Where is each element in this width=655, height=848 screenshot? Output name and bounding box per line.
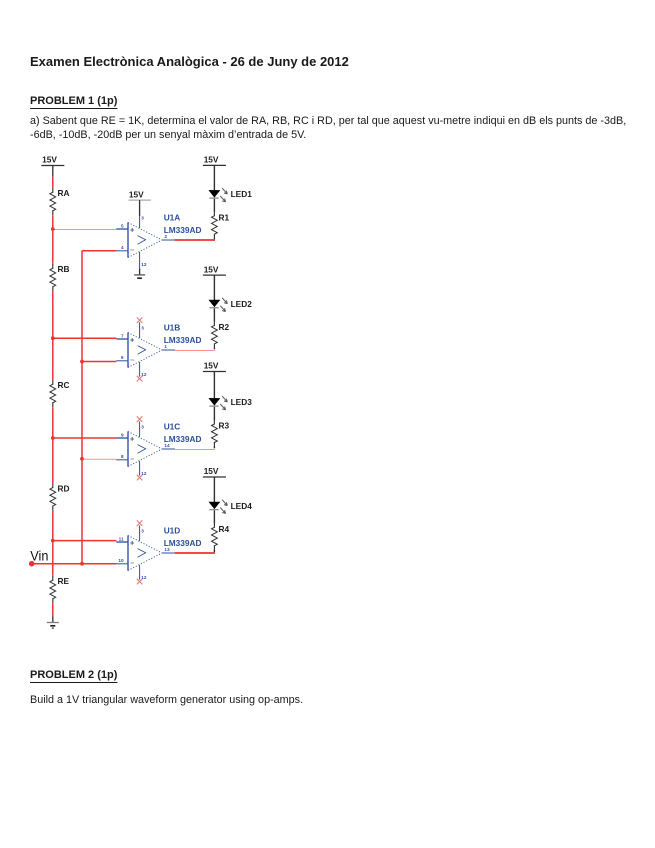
svg-text:RB: RB [58, 264, 70, 274]
svg-text:10: 10 [118, 558, 124, 563]
svg-text:6: 6 [121, 355, 124, 360]
svg-text:RA: RA [58, 188, 70, 198]
svg-text:3: 3 [141, 425, 144, 430]
svg-text:LED4: LED4 [231, 501, 253, 511]
svg-text:12: 12 [141, 575, 147, 580]
svg-text:LED2: LED2 [231, 299, 253, 309]
svg-text:15V: 15V [204, 361, 219, 371]
svg-text:LM339AD: LM339AD [164, 225, 202, 235]
svg-text:7: 7 [121, 333, 124, 338]
svg-text:RD: RD [58, 483, 70, 493]
svg-text:8: 8 [121, 454, 124, 459]
svg-text:11: 11 [119, 536, 124, 541]
svg-text:LED3: LED3 [231, 397, 253, 407]
svg-text:U1B: U1B [164, 323, 181, 333]
svg-text:U1D: U1D [164, 526, 181, 536]
svg-text:5: 5 [121, 223, 124, 228]
svg-text:3: 3 [141, 326, 144, 331]
svg-text:15V: 15V [204, 466, 219, 476]
svg-text:LM339AD: LM339AD [164, 335, 202, 345]
svg-text:R3: R3 [219, 421, 230, 431]
svg-text:15V: 15V [204, 155, 219, 165]
svg-text:3: 3 [141, 529, 144, 534]
svg-text:LM339AD: LM339AD [164, 538, 202, 548]
svg-text:12: 12 [141, 372, 147, 377]
svg-text:R2: R2 [219, 322, 230, 332]
svg-text:15V: 15V [42, 155, 57, 165]
svg-text:15V: 15V [129, 189, 144, 199]
svg-text:RE: RE [58, 576, 70, 586]
svg-text:R1: R1 [219, 212, 230, 222]
svg-text:3: 3 [141, 216, 144, 221]
svg-text:15V: 15V [204, 264, 219, 274]
svg-text:U1A: U1A [164, 213, 181, 223]
svg-text:4: 4 [121, 245, 124, 250]
svg-text:Vin: Vin [30, 548, 48, 564]
svg-text:LM339AD: LM339AD [164, 434, 202, 444]
svg-text:12: 12 [141, 471, 147, 476]
svg-text:RC: RC [58, 380, 70, 390]
svg-text:R4: R4 [219, 524, 230, 534]
svg-text:9: 9 [121, 432, 124, 437]
svg-text:U1C: U1C [164, 422, 181, 432]
svg-text:12: 12 [141, 262, 147, 267]
svg-text:LED1: LED1 [231, 189, 253, 199]
